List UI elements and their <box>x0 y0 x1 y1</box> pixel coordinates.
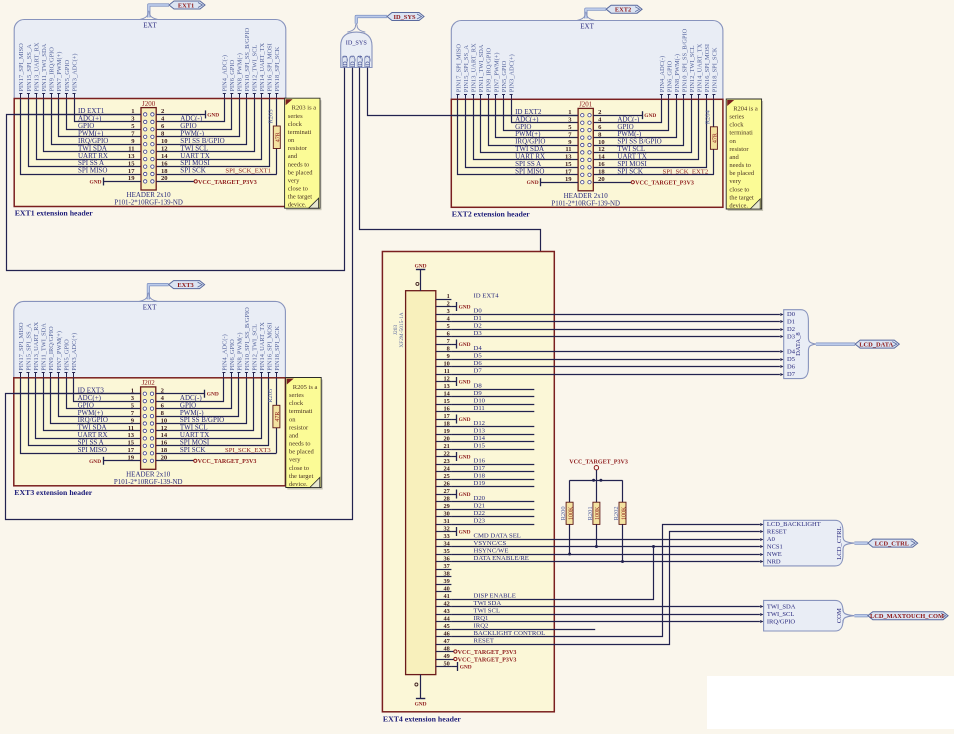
wire PIN7_PWM(+) to J201 pin 7 <box>496 99 579 137</box>
wire R200 to HSYNC/WE with junction <box>569 524 571 554</box>
svg-text:17: 17 <box>444 413 450 420</box>
wire PIN4_ADC(-) to J202 pin 4 <box>156 378 224 402</box>
svg-text:LCD_DATA: LCD_DATA <box>859 341 893 348</box>
wire D0 to DATA_8 harness <box>451 313 783 316</box>
wire PIN7_PWM(+) to J200 pin 7 <box>59 99 142 137</box>
svg-text:EXT1: EXT1 <box>178 2 194 9</box>
power port flag LCD_CTRL <box>854 539 917 547</box>
svg-text:40: 40 <box>444 585 450 592</box>
svg-text:42: 42 <box>444 600 450 607</box>
svg-text:PIN14_UART_TX: PIN14_UART_TX <box>259 322 266 371</box>
svg-text:D7: D7 <box>474 368 483 375</box>
svg-text:VCC_TARGET_P3V3: VCC_TARGET_P3V3 <box>198 459 257 465</box>
svg-text:RESET: RESET <box>474 638 494 645</box>
J202 pin numbers <box>128 388 168 462</box>
svg-text:ID EXT4: ID EXT4 <box>474 293 500 300</box>
svg-text:IRQ/GPIO: IRQ/GPIO <box>767 619 795 626</box>
svg-text:6: 6 <box>447 330 450 337</box>
ground at J203 pin 17 <box>451 415 470 424</box>
wire PIN3_ADC(+) to J201 pin 3 <box>512 99 579 122</box>
svg-text:GND: GND <box>415 263 427 269</box>
wire D16 stub <box>451 464 534 466</box>
svg-text:PIN13_UART_RX: PIN13_UART_RX <box>471 43 478 92</box>
svg-text:25: 25 <box>444 473 450 480</box>
svg-text:CMD DATA SEL: CMD DATA SEL <box>474 533 521 540</box>
svg-text:PIN8_PWM(-): PIN8_PWM(-) <box>236 332 243 370</box>
svg-text:resistor: resistor <box>289 424 309 431</box>
wire D10 stub <box>451 404 534 406</box>
svg-text:PIN11_TWI_SDA: PIN11_TWI_SDA <box>41 323 48 371</box>
svg-text:GND: GND <box>90 179 102 185</box>
svg-text:D15: D15 <box>474 443 486 450</box>
harness connector EXT (sheet entry box) for EXT2 <box>451 21 723 110</box>
wire PIN7_PWM(+) to J202 pin 7 <box>59 378 141 417</box>
svg-text:PIN4_ADC(-): PIN4_ADC(-) <box>659 56 666 93</box>
svg-text:14: 14 <box>161 153 168 160</box>
svg-text:NCS1: NCS1 <box>767 544 783 551</box>
connector J202 HEADER 2x10 <box>114 379 183 486</box>
svg-text:21: 21 <box>444 443 450 450</box>
svg-text:R202: R202 <box>613 506 620 520</box>
wire DATA_ENABLE/RE / NRD <box>451 561 760 563</box>
wire net ID_2 (ID_SYS to EXT2 pin1) <box>368 68 579 116</box>
harness connector EXT (sheet entry box) for EXT1 <box>14 20 286 110</box>
wire PIN16_SPI_MOSI to J202 pin 16 <box>156 378 269 446</box>
svg-text:44: 44 <box>444 615 451 622</box>
wire D2 to DATA_8 harness <box>451 328 783 331</box>
wire IRQ1 to COM IRQ/GPIO <box>451 621 760 623</box>
svg-text:PIN9_IRQ/GPIO: PIN9_IRQ/GPIO <box>48 326 55 371</box>
svg-text:P101-2*10RGF-139-ND: P101-2*10RGF-139-ND <box>114 479 183 486</box>
svg-text:very: very <box>288 177 300 184</box>
svg-text:the target: the target <box>288 194 312 201</box>
svg-text:3: 3 <box>447 308 450 315</box>
svg-text:device.: device. <box>288 202 307 209</box>
svg-text:R200: R200 <box>560 506 567 520</box>
svg-text:PIN18_SPI_SCK: PIN18_SPI_SCK <box>274 46 281 91</box>
EXT2 harness entry pin labels <box>455 28 718 99</box>
svg-text:7: 7 <box>447 338 450 345</box>
wire D21 stub <box>451 509 534 511</box>
wire D11 stub <box>451 411 534 413</box>
wire PIN8_PWM(-) to J202 pin 8 <box>156 378 239 417</box>
svg-text:R205: R205 <box>267 389 274 403</box>
svg-text:13: 13 <box>128 153 135 160</box>
svg-text:very: very <box>729 178 741 185</box>
svg-text:19: 19 <box>444 428 450 435</box>
ground at J201 pin 19 <box>527 178 578 186</box>
svg-text:22: 22 <box>444 450 450 457</box>
svg-text:very: very <box>289 457 301 464</box>
svg-text:47R: 47R <box>276 132 282 142</box>
svg-text:GND: GND <box>459 417 471 423</box>
svg-text:VCC_TARGET_P3V3: VCC_TARGET_P3V3 <box>458 657 517 663</box>
svg-text:GND: GND <box>459 380 471 386</box>
wire PIN11_TWI_SDA to J202 pin 11 <box>44 378 141 431</box>
harness connector COM <box>764 600 855 631</box>
wire D1 to DATA_8 harness <box>451 320 783 323</box>
svg-text:18: 18 <box>161 447 168 454</box>
svg-text:10: 10 <box>444 360 450 367</box>
wire PIN12_TWI_SCL to J202 pin 12 <box>156 378 254 431</box>
ground at J200 pin 19 <box>90 177 141 185</box>
EXT3 harness entry pin labels <box>18 307 281 378</box>
wire BACKLIGHT_CONTROL to LCD_BACKLIGHT <box>451 525 760 637</box>
svg-text:PIN10_SPI_SS_B/GPIO: PIN10_SPI_SS_B/GPIO <box>244 307 251 371</box>
svg-text:LCD_CTRL: LCD_CTRL <box>875 540 909 547</box>
svg-text:HEADER 2x10: HEADER 2x10 <box>127 191 172 199</box>
wire PIN5_GPIO to J201 pin 5 <box>504 99 579 130</box>
svg-text:resistor: resistor <box>288 145 308 152</box>
svg-text:EXT: EXT <box>143 22 157 30</box>
power port flag LCD_DATA <box>816 340 899 348</box>
svg-text:ID_SYS: ID_SYS <box>393 14 415 21</box>
svg-text:18: 18 <box>598 169 605 176</box>
svg-text:terminati: terminati <box>289 408 313 415</box>
power port flag ID_SYS <box>347 13 424 33</box>
power port flag LCD_MAXTOUCH_COM <box>854 612 948 620</box>
svg-text:PIN11_TWI_SDA: PIN11_TWI_SDA <box>41 43 48 91</box>
svg-text:PIN6_GPIO: PIN6_GPIO <box>229 60 236 92</box>
svg-text:45: 45 <box>444 623 450 630</box>
wire PIN11_TWI_SDA to J200 pin 11 <box>44 99 142 152</box>
svg-text:20: 20 <box>444 435 450 442</box>
svg-text:J203: J203 <box>393 325 399 335</box>
svg-text:PIN7_PWM(+): PIN7_PWM(+) <box>493 52 500 92</box>
resistor R204 value 47R <box>705 109 719 149</box>
wire PIN15_SPI_SS_A to J200 pin 15 <box>29 99 142 167</box>
svg-text:PIN14_UART_TX: PIN14_UART_TX <box>696 43 703 92</box>
svg-text:RESET: RESET <box>767 529 787 536</box>
svg-text:11: 11 <box>565 146 571 153</box>
wire VSYNC/CS / NCS1 <box>451 546 760 548</box>
wire CMD_DATA_SEL / A0 <box>451 539 760 541</box>
svg-text:GND: GND <box>459 530 471 536</box>
svg-text:PIN7_PWM(+): PIN7_PWM(+) <box>56 52 63 92</box>
svg-text:PIN16_SPI_MOSI: PIN16_SPI_MOSI <box>267 43 274 91</box>
svg-text:13: 13 <box>565 154 572 161</box>
svg-text:LCD_BACKLIGHT: LCD_BACKLIGHT <box>767 521 821 528</box>
svg-text:SPI MISO: SPI MISO <box>515 168 544 176</box>
svg-text:38: 38 <box>444 570 450 577</box>
svg-text:18: 18 <box>161 168 168 175</box>
svg-text:PIN16_SPI_MOSI: PIN16_SPI_MOSI <box>704 44 711 92</box>
wire IRQ2 stub <box>451 629 595 631</box>
svg-text:SPI MISO: SPI MISO <box>78 167 107 175</box>
net labels EXT1 rows <box>78 107 271 175</box>
power VCC_TARGET_P3V3 at J202 pin 20 <box>156 459 257 465</box>
svg-text:12: 12 <box>598 146 605 153</box>
wire D3 to DATA_8 harness <box>451 335 783 338</box>
wire net ID_3 (ID_SYS to EXT3 pin1) <box>6 68 353 520</box>
svg-text:11: 11 <box>444 368 450 375</box>
power VCC_TARGET_P3V3 at J203 pin 49 <box>451 657 516 663</box>
wire D4 to DATA_8 harness <box>451 350 783 353</box>
svg-text:PIN14_UART_TX: PIN14_UART_TX <box>259 43 266 92</box>
svg-text:PIN17_SPI_MISO: PIN17_SPI_MISO <box>455 44 462 93</box>
power VCC_TARGET_P3V3 at J203 pin 48 <box>451 650 516 656</box>
svg-text:2: 2 <box>447 300 450 307</box>
svg-text:GND: GND <box>415 702 427 708</box>
EXT3 extension header sheet box <box>14 378 286 497</box>
wire PIN8_PWM(-) to J200 pin 8 <box>156 99 239 137</box>
wire PIN12_TWI_SCL to J200 pin 12 <box>156 99 254 152</box>
resistor R205 value 47R <box>267 389 281 428</box>
harness connector ID_SYS <box>341 32 372 68</box>
wire D19 stub <box>451 486 534 488</box>
svg-text:12: 12 <box>444 375 450 382</box>
svg-text:P101-2*10RGF-139-ND: P101-2*10RGF-139-ND <box>114 200 183 207</box>
svg-text:PIN8_PWM(-): PIN8_PWM(-) <box>674 54 681 92</box>
svg-text:10: 10 <box>598 139 605 146</box>
wire PIN18_SPI_SCK through R204 to J201 pin 18 <box>593 99 714 175</box>
wire D7 to DATA_8 harness <box>451 373 783 376</box>
wire D13 stub <box>451 434 534 436</box>
wire D22 stub <box>451 516 534 518</box>
wire D23 stub <box>451 524 534 526</box>
svg-text:28: 28 <box>444 495 450 502</box>
resistor R203 value 47R <box>268 109 282 148</box>
wire PIN11_TWI_SDA to J201 pin 11 <box>481 99 579 152</box>
svg-text:IRQ2: IRQ2 <box>474 623 489 630</box>
svg-text:GND: GND <box>460 665 472 671</box>
svg-text:PIN10_SPI_SS_B/GPIO: PIN10_SPI_SS_B/GPIO <box>244 28 251 92</box>
svg-text:32: 32 <box>444 525 450 532</box>
svg-text:D0: D0 <box>787 311 795 318</box>
svg-text:the target: the target <box>729 194 753 201</box>
wire RESET to LCD_CTRL RESET <box>451 532 760 645</box>
power VCC_TARGET_P3V3 above pull resistors <box>569 460 628 503</box>
svg-text:be placed: be placed <box>288 169 313 176</box>
junction VCC branch right <box>599 479 602 482</box>
power VCC_TARGET_P3V3 at J200 pin 20 <box>156 180 257 186</box>
svg-text:PIN15_SPI_SS_A: PIN15_SPI_SS_A <box>25 323 32 371</box>
svg-text:and: and <box>729 154 739 161</box>
ground at J203 pin 27 <box>451 490 470 499</box>
svg-text:VCC_TARGET_P3V3: VCC_TARGET_P3V3 <box>458 650 517 656</box>
ground at J203 pin 50 <box>451 662 471 671</box>
svg-text:ID_2: ID_2 <box>366 55 372 67</box>
svg-text:14: 14 <box>598 154 605 161</box>
J201 pin numbers <box>565 109 605 183</box>
svg-text:PIN10_SPI_SS_B/GPIO: PIN10_SPI_SS_B/GPIO <box>681 28 688 92</box>
svg-text:close to: close to <box>289 465 309 472</box>
J203 net labels <box>474 293 546 645</box>
svg-text:29: 29 <box>444 503 450 510</box>
svg-text:17: 17 <box>565 169 572 176</box>
wire PIN14_UART_TX to J201 pin 14 <box>593 99 698 159</box>
svg-text:R205 is a: R205 is a <box>293 384 318 391</box>
svg-text:PIN3_ADC(+): PIN3_ADC(+) <box>71 53 78 91</box>
svg-text:VCC_TARGET_P3V3: VCC_TARGET_P3V3 <box>569 460 628 466</box>
svg-text:16: 16 <box>444 405 450 412</box>
wire PIN17_SPI_MISO to J200 pin 17 <box>21 99 142 175</box>
resistor R202 value 100K <box>613 502 627 524</box>
svg-text:terminati: terminati <box>729 130 753 137</box>
svg-text:15: 15 <box>128 440 135 447</box>
svg-text:D5: D5 <box>474 353 483 360</box>
svg-text:R203: R203 <box>268 109 275 123</box>
wire TWI_SCL to COM <box>451 614 760 616</box>
svg-text:ID_SYS: ID_SYS <box>346 40 368 47</box>
svg-text:EXT2 extension header: EXT2 extension header <box>452 209 531 218</box>
svg-text:J202: J202 <box>142 379 156 387</box>
svg-text:PIN4_ADC(-): PIN4_ADC(-) <box>221 334 228 371</box>
svg-text:D3: D3 <box>787 334 795 341</box>
wire D9 stub <box>451 396 534 398</box>
svg-text:15: 15 <box>565 161 572 168</box>
wire PIN6_GPIO to J202 pin 6 <box>156 378 232 409</box>
svg-text:SPI SCK: SPI SCK <box>180 167 205 175</box>
svg-text:8: 8 <box>447 345 450 352</box>
svg-text:39: 39 <box>444 578 450 585</box>
svg-text:LCD_CTRL: LCD_CTRL <box>836 526 843 559</box>
svg-text:26: 26 <box>444 480 450 487</box>
svg-text:PIN12_TWI_SCL: PIN12_TWI_SCL <box>689 45 696 92</box>
wire PIN4_ADC(-) to J201 pin 4 <box>593 99 661 122</box>
svg-text:5: 5 <box>447 323 450 330</box>
wire R202 to DATA_ENABLE/RE with junction <box>622 524 624 561</box>
svg-text:PIN6_GPIO: PIN6_GPIO <box>229 339 236 371</box>
svg-text:TWI SCL: TWI SCL <box>474 608 501 615</box>
wire PIN17_SPI_MISO to J201 pin 17 <box>458 99 579 174</box>
svg-text:11: 11 <box>128 425 134 432</box>
svg-text:31: 31 <box>444 518 450 525</box>
svg-text:9: 9 <box>447 353 450 360</box>
svg-text:EXT: EXT <box>143 303 157 311</box>
net labels EXT3 rows <box>78 386 272 454</box>
svg-text:TWI_SCL: TWI_SCL <box>767 611 794 618</box>
svg-text:needs to: needs to <box>288 161 309 168</box>
ground at J202 pin 2 <box>156 390 219 398</box>
svg-text:VCC_TARGET_P3V3: VCC_TARGET_P3V3 <box>198 180 257 186</box>
wire PIN15_SPI_SS_A to J201 pin 15 <box>466 99 579 167</box>
svg-text:on: on <box>729 138 736 145</box>
svg-text:HEADER 2x10: HEADER 2x10 <box>564 192 609 200</box>
ground at J203 pin 32 <box>451 527 470 536</box>
wire PIN5_GPIO to J200 pin 5 <box>67 99 142 130</box>
J200 pin numbers <box>128 108 168 182</box>
wire PIN10_SPI_SS_B/GPIO to J201 pin 10 <box>593 99 683 145</box>
svg-text:ID_4: ID_4 <box>358 55 364 67</box>
ground at J203 pin 12 <box>451 377 470 386</box>
power port flag EXT2 <box>577 5 642 20</box>
svg-text:close to: close to <box>288 186 308 193</box>
ground at J203 pin 7 <box>451 340 470 349</box>
svg-text:49: 49 <box>444 653 450 660</box>
svg-text:SPI_SCK_EXT1: SPI_SCK_EXT1 <box>225 168 271 175</box>
wire D18 stub <box>451 479 534 481</box>
svg-text:43: 43 <box>444 608 450 615</box>
svg-text:PIN17_SPI_MISO: PIN17_SPI_MISO <box>18 43 25 92</box>
svg-text:needs to: needs to <box>289 441 310 448</box>
wire PIN18_SPI_SCK through R203 to J200 pin 18 <box>156 99 277 175</box>
svg-text:30: 30 <box>444 510 450 517</box>
svg-text:and: and <box>288 153 298 160</box>
svg-text:PIN9_IRQ/GPIO: PIN9_IRQ/GPIO <box>49 47 56 92</box>
svg-text:clock: clock <box>289 400 304 407</box>
harness connector LCD_CTRL <box>764 520 855 566</box>
svg-text:36: 36 <box>444 555 450 562</box>
svg-text:17: 17 <box>128 447 135 454</box>
svg-text:EXT2: EXT2 <box>615 7 631 14</box>
svg-text:46: 46 <box>444 630 450 637</box>
EXT1 harness entry pin labels <box>18 28 281 99</box>
svg-text:HEADER 2x10: HEADER 2x10 <box>126 470 171 478</box>
svg-text:D6: D6 <box>787 364 796 371</box>
svg-text:GND: GND <box>459 455 471 461</box>
svg-text:ID_3: ID_3 <box>351 55 357 67</box>
wire PIN16_SPI_MOSI to J200 pin 16 <box>156 99 269 167</box>
svg-text:PIN4_ADC(-): PIN4_ADC(-) <box>222 55 229 92</box>
svg-text:DISP ENABLE: DISP ENABLE <box>474 593 516 600</box>
svg-text:XF2M-5015-1A: XF2M-5015-1A <box>399 312 405 347</box>
svg-text:R204: R204 <box>705 109 712 124</box>
svg-text:D7: D7 <box>787 371 796 378</box>
svg-text:be placed: be placed <box>729 170 754 177</box>
svg-text:D18: D18 <box>474 473 486 480</box>
svg-text:PIN5_GPIO: PIN5_GPIO <box>501 60 508 92</box>
svg-text:16: 16 <box>161 160 168 167</box>
wire ID_EXT1 row <box>14 114 141 116</box>
svg-text:A0: A0 <box>767 536 775 543</box>
svg-text:on: on <box>289 416 296 423</box>
svg-text:resistor: resistor <box>729 146 749 153</box>
svg-text:41: 41 <box>444 593 450 600</box>
wire R201 to VSYNC/CS with junction <box>596 524 598 546</box>
svg-text:34: 34 <box>444 540 451 547</box>
svg-text:50: 50 <box>444 660 450 667</box>
svg-text:SPI_SCK_EXT2: SPI_SCK_EXT2 <box>663 169 709 176</box>
ground at J201 pin 2 <box>593 111 656 119</box>
wire PIN6_GPIO to J201 pin 6 <box>593 99 668 130</box>
svg-text:J200: J200 <box>142 100 156 108</box>
svg-text:13: 13 <box>128 432 135 439</box>
wire ID_EXT3 row <box>14 393 141 395</box>
power port flag EXT3 <box>139 281 204 302</box>
svg-text:GND: GND <box>207 112 219 118</box>
svg-text:16: 16 <box>161 440 168 447</box>
svg-text:NRD: NRD <box>767 559 781 566</box>
svg-text:GND: GND <box>527 180 539 186</box>
J203 pin stubs and numbers <box>436 293 452 668</box>
connector J200 HEADER 2x10 <box>114 100 183 207</box>
svg-text:LCD_MAXTOUCH_COM: LCD_MAXTOUCH_COM <box>870 613 944 620</box>
wire PIN3_ADC(+) to J202 pin 3 <box>74 378 141 402</box>
svg-text:PIN3_ADC(+): PIN3_ADC(+) <box>71 333 78 371</box>
svg-text:37: 37 <box>444 563 450 570</box>
svg-text:24: 24 <box>444 465 451 472</box>
ground at J203 pin 2 <box>451 302 470 311</box>
wire PIN5_GPIO to J202 pin 5 <box>67 378 141 409</box>
svg-text:PIN5_GPIO: PIN5_GPIO <box>63 339 70 371</box>
svg-text:EXT4 extension header: EXT4 extension header <box>383 714 462 723</box>
resistor R200 value 100K <box>560 502 574 524</box>
svg-text:GND: GND <box>89 459 101 465</box>
wire D5 to DATA_8 harness <box>451 358 783 361</box>
svg-text:GND: GND <box>644 113 656 119</box>
power VCC_TARGET_P3V3 at J201 pin 20 <box>593 181 694 187</box>
ground above J203 (shield) <box>415 263 427 290</box>
svg-text:series: series <box>288 113 303 120</box>
svg-text:R204 is a: R204 is a <box>733 106 758 113</box>
svg-text:R201: R201 <box>587 506 594 520</box>
svg-text:clock: clock <box>729 122 744 129</box>
svg-text:close to: close to <box>729 186 749 193</box>
svg-text:PIN15_SPI_SS_A: PIN15_SPI_SS_A <box>26 44 33 92</box>
svg-text:47R: 47R <box>713 133 719 143</box>
note: R205 series termination note <box>286 378 323 490</box>
